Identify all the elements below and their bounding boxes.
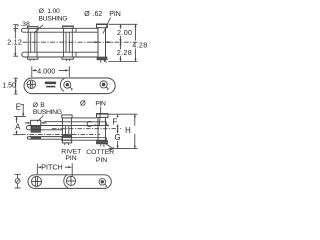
svg-text:G: G xyxy=(115,133,121,142)
right extension ticks of bottom drawing xyxy=(109,114,138,148)
svg-text:PIN: PIN xyxy=(65,155,76,162)
bushing B4 lower flange xyxy=(63,135,72,137)
cotter pin end C2 (circle with pin and cotter tail) xyxy=(100,81,107,88)
dimension line 4.28 (x=135.5) xyxy=(135,24,137,61)
pin P2 top cap xyxy=(97,114,109,118)
svg-text:Ø: Ø xyxy=(80,99,86,108)
svg-text:B: B xyxy=(40,102,45,109)
pin P1 shaft xyxy=(98,28,106,57)
dimension line H (x=134.8) xyxy=(134,114,136,148)
inner plate square end at middle joint xyxy=(75,28,77,57)
rivet pin end R1 (circle with cross) xyxy=(27,80,36,89)
lower top plate band xyxy=(26,126,63,130)
bottom plate bar (lower sidebar pair, plan view) xyxy=(22,52,98,57)
sidebar outline (rounded strip) xyxy=(28,175,111,189)
svg-text:2.28: 2.28 xyxy=(117,48,132,57)
bushing B3 dark fill through plate bands xyxy=(31,126,40,130)
centerline of lower end xyxy=(21,133,100,135)
svg-text:E: E xyxy=(16,102,21,111)
dimension 4.000 (pitch of top chain) xyxy=(32,66,70,77)
raised top plate band (offset end) xyxy=(61,118,106,126)
rivet pin end R2 (circle with cross) xyxy=(32,176,42,186)
svg-text:1.00: 1.00 xyxy=(47,8,60,15)
svg-text:.62: .62 xyxy=(93,11,103,18)
sidebar outline (rounded strip) xyxy=(24,78,115,94)
centerline (horizontal dash-dot) of top plan view xyxy=(23,41,138,43)
bushing B3 top cap (left joint, with ØB arrows) xyxy=(31,120,41,125)
bushing B1 barrel lines xyxy=(28,28,37,57)
bushing B3 barrel lines xyxy=(31,126,41,140)
svg-text:BUSHING: BUSHING xyxy=(33,109,62,116)
pin P2 cotter pin (bent tail) xyxy=(101,144,114,151)
centerline of raised end xyxy=(52,128,121,130)
svg-text:2.12: 2.12 xyxy=(7,37,22,46)
svg-text:2.00: 2.00 xyxy=(117,28,132,37)
Ø symbol on dimension line xyxy=(15,179,20,184)
svg-text:Ø: Ø xyxy=(39,8,45,15)
bushing B1 top cap (left joint) xyxy=(28,27,38,29)
pin P2 bottom washer xyxy=(97,140,108,143)
leader from PIN label to pin P1 cap xyxy=(103,18,111,34)
pin P1 top cap (right joint) xyxy=(97,24,108,28)
rivet pin end R3 (circle with cross) xyxy=(66,176,75,185)
bushing B2 small cotter mark below xyxy=(66,59,69,61)
right extension ticks (pin top / pin bottom) xyxy=(109,24,138,61)
manufacturer stamp on sidebar xyxy=(45,82,56,85)
mating plate end arc at pitch joint xyxy=(64,174,68,187)
svg-text:BUSHING: BUSHING xyxy=(38,15,67,22)
raised bottom plate band (offset end) xyxy=(61,138,106,141)
pin P1 bottom washer xyxy=(97,57,107,60)
svg-text:Ø: Ø xyxy=(84,11,90,18)
svg-text:F: F xyxy=(113,118,118,127)
dimension line F / G (x=117.6) xyxy=(117,114,119,148)
svg-text:A: A xyxy=(15,123,21,132)
leader from Ø PIN label to pin P2 cap xyxy=(99,107,101,127)
ØB arrows at bushing cap xyxy=(25,122,47,124)
pin P2 shaft xyxy=(98,117,106,140)
cotter pin end C1 (circle with pin and cotter tail) xyxy=(64,81,71,88)
svg-text:PIN: PIN xyxy=(96,157,107,164)
svg-text:4.000: 4.000 xyxy=(37,67,55,76)
svg-text:1.50: 1.50 xyxy=(2,83,16,90)
mating plate end arc at joint 2 xyxy=(60,79,64,92)
top plate bar (upper sidebar pair, plan view) xyxy=(21,28,98,32)
svg-text:PIN: PIN xyxy=(109,11,121,18)
bushing B2 top cap (middle joint) xyxy=(63,26,74,28)
svg-text:COTTER: COTTER xyxy=(86,149,114,156)
bushing B4 top cap (middle joint) xyxy=(62,115,72,118)
dimension line 2.00 / 2.28 (x=120.5) xyxy=(120,24,122,61)
bushing B3 lower flange xyxy=(31,130,41,133)
bushing B4 bottom cap xyxy=(62,140,71,143)
leader from BUSHING label to bushing B1 xyxy=(34,25,43,33)
bushing B1 bottom cap xyxy=(28,57,38,59)
bushing B2 bottom cap xyxy=(62,57,73,59)
svg-text:C: C xyxy=(86,120,92,129)
leader from ØB BUSHING label to bushing B3 xyxy=(37,116,43,122)
svg-text:PITCH: PITCH xyxy=(41,162,63,171)
lower bottom plate band (thin, offset link) xyxy=(27,137,63,140)
svg-text:H: H xyxy=(125,126,131,135)
svg-text:4.28: 4.28 xyxy=(132,41,147,50)
pin P1 cotter pin below washer xyxy=(101,60,107,63)
svg-text:PIN: PIN xyxy=(95,100,106,107)
lower top outer plate line xyxy=(44,121,63,123)
bushing B4 barrel lines xyxy=(63,118,72,140)
bushing B2 barrel lines xyxy=(64,28,73,57)
svg-text:.38: .38 xyxy=(20,21,30,28)
svg-text:Ø: Ø xyxy=(33,102,39,109)
cotter pin end C3 (circle with pin and tail) xyxy=(99,179,106,186)
dimension Ø (sidebar/roller height at left end) xyxy=(15,175,21,188)
pin diameter arrows on centerline xyxy=(92,41,112,43)
